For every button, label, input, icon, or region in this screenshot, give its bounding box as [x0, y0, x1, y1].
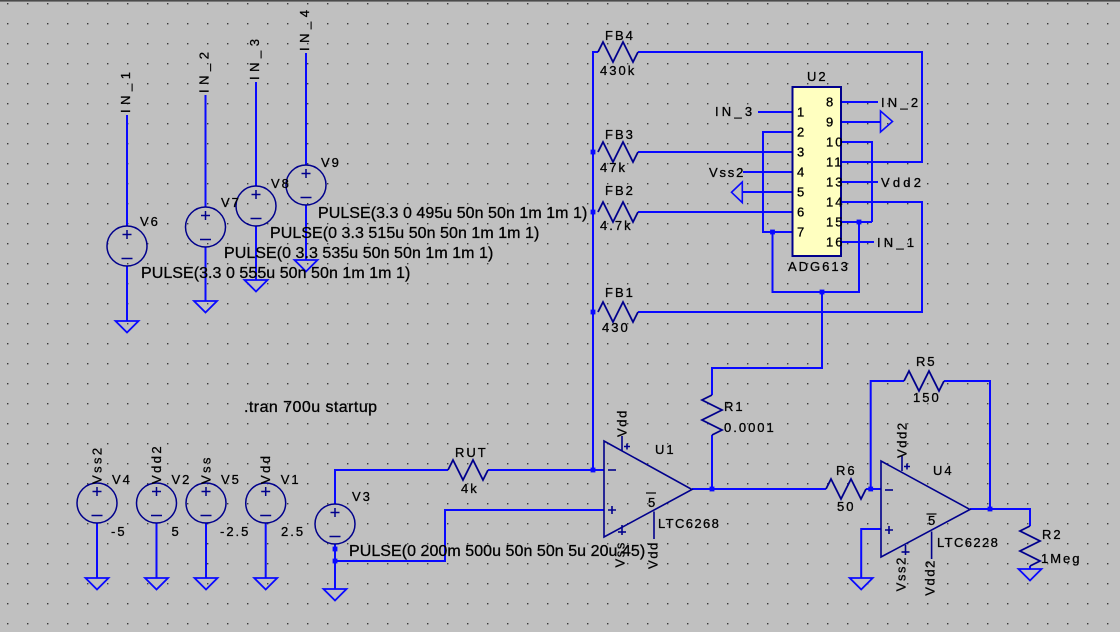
- svg-text:Vss: Vss: [199, 455, 214, 484]
- svg-text:5: 5: [172, 524, 181, 539]
- svg-text:IN_2: IN_2: [197, 48, 212, 93]
- svg-text:R6: R6: [836, 463, 857, 478]
- svg-text:PULSE(0 3.3 535u 50n 50n 1m 1m: PULSE(0 3.3 535u 50n 50n 1m 1m 1): [224, 245, 493, 262]
- svg-text:FB4: FB4: [605, 28, 635, 43]
- svg-text:4: 4: [797, 165, 806, 180]
- svg-text:ADG613: ADG613: [788, 259, 850, 274]
- svg-text:6: 6: [797, 205, 806, 220]
- svg-text:U4: U4: [933, 463, 954, 478]
- svg-text:5: 5: [648, 495, 657, 510]
- svg-text:47k: 47k: [600, 160, 627, 175]
- svg-text:R1: R1: [724, 399, 745, 414]
- svg-text:V3: V3: [352, 489, 372, 504]
- svg-text:8: 8: [826, 95, 835, 110]
- svg-text:V6: V6: [140, 214, 160, 229]
- svg-text:IN_1: IN_1: [118, 68, 133, 113]
- svg-text:9: 9: [826, 115, 835, 130]
- svg-text:V1: V1: [281, 472, 301, 487]
- svg-text:Vdd2: Vdd2: [881, 175, 924, 190]
- svg-text:Vss2: Vss2: [709, 165, 745, 180]
- svg-text:IN_3: IN_3: [715, 104, 755, 119]
- svg-text:1Meg: 1Meg: [1041, 551, 1082, 566]
- svg-text:1: 1: [797, 105, 806, 120]
- svg-text:2.5: 2.5: [281, 524, 305, 539]
- svg-text:FB1: FB1: [605, 285, 635, 300]
- svg-text:IN_3: IN_3: [247, 35, 262, 80]
- svg-text:-2.5: -2.5: [220, 524, 250, 539]
- svg-text:R2: R2: [1042, 527, 1063, 542]
- svg-text:10: 10: [826, 135, 844, 150]
- svg-text:V2: V2: [172, 472, 192, 487]
- svg-text:Vdd2: Vdd2: [895, 421, 910, 458]
- svg-text:IN_2: IN_2: [881, 95, 921, 110]
- svg-text:V5: V5: [221, 472, 241, 487]
- svg-text:-5: -5: [111, 524, 127, 539]
- svg-text:.tran 700u startup: .tran 700u startup: [244, 399, 378, 416]
- svg-text:PULSE(3.3 0 495u 50n 50n 1m 1m: PULSE(3.3 0 495u 50n 50n 1m 1m 1): [318, 205, 587, 222]
- svg-text:FB3: FB3: [605, 127, 635, 142]
- svg-text:11: 11: [826, 155, 844, 170]
- svg-text:Vss2: Vss2: [894, 556, 909, 591]
- svg-text:Vdd: Vdd: [646, 541, 661, 569]
- svg-text:14: 14: [826, 195, 844, 210]
- svg-text:V9: V9: [321, 155, 341, 170]
- svg-text:Vdd2: Vdd2: [149, 444, 164, 484]
- svg-text:3: 3: [797, 145, 806, 160]
- svg-text:150: 150: [913, 390, 941, 405]
- svg-text:5: 5: [797, 185, 806, 200]
- svg-text:RUT: RUT: [455, 445, 488, 460]
- svg-text:Vdd2: Vdd2: [923, 559, 938, 596]
- svg-text:PULSE(0 3.3 515u 50n 50n 1m 1m: PULSE(0 3.3 515u 50n 50n 1m 1m 1): [270, 225, 539, 242]
- svg-text:Vss2: Vss2: [90, 445, 105, 484]
- svg-text:V7: V7: [221, 195, 241, 210]
- svg-text:50: 50: [837, 499, 855, 514]
- svg-text:4k: 4k: [461, 481, 479, 496]
- svg-text:430k: 430k: [600, 63, 636, 78]
- svg-text:V4: V4: [112, 472, 132, 487]
- svg-text:Vdd: Vdd: [615, 409, 630, 437]
- svg-text:U2: U2: [807, 69, 828, 84]
- svg-text:7: 7: [797, 225, 806, 240]
- svg-text:IN_4: IN_4: [297, 6, 312, 51]
- svg-text:4.7k: 4.7k: [600, 218, 633, 233]
- svg-text:PULSE(0 200m 500u 50n 50n 5u 2: PULSE(0 200m 500u 50n 50n 5u 20u 45): [349, 543, 645, 560]
- svg-text:Vdd: Vdd: [258, 454, 273, 484]
- svg-text:PULSE(3.3 0 555u 50n 50n 1m 1m: PULSE(3.3 0 555u 50n 50n 1m 1m 1): [141, 265, 410, 282]
- svg-text:FB2: FB2: [605, 183, 635, 198]
- svg-text:2: 2: [797, 125, 806, 140]
- svg-text:0.0001: 0.0001: [724, 420, 776, 435]
- svg-text:R5: R5: [916, 354, 937, 369]
- svg-text:LTC6228: LTC6228: [937, 535, 999, 550]
- svg-text:430: 430: [602, 320, 630, 335]
- svg-text:16: 16: [826, 235, 844, 250]
- svg-text:V8: V8: [271, 176, 291, 191]
- svg-text:LTC6268: LTC6268: [658, 516, 720, 531]
- svg-text:IN_1: IN_1: [877, 235, 917, 250]
- svg-text:13: 13: [826, 175, 844, 190]
- svg-text:U1: U1: [655, 442, 676, 457]
- svg-text:5: 5: [928, 513, 937, 528]
- svg-text:15: 15: [826, 215, 844, 230]
